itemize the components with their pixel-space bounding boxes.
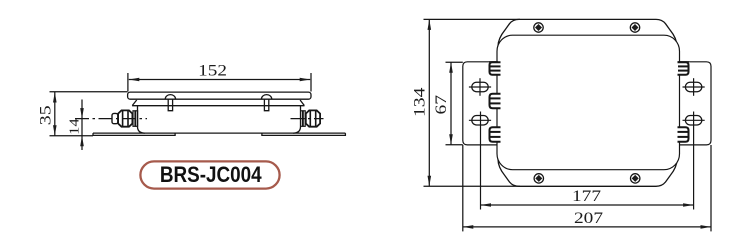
screw TV3 — [534, 174, 543, 183]
arrow up to base — [80, 136, 84, 147]
arrow right of 207 — [701, 225, 712, 229]
terminal T1 hex nut — [118, 110, 132, 126]
base plate (chamfered) — [498, 19, 677, 186]
flange right top edge overlay — [678, 61, 690, 63]
body step left — [132, 100, 136, 106]
slot RT crosshair — [683, 78, 705, 96]
screw S1 shaft — [168, 99, 172, 111]
dim 134 line — [428, 19, 430, 186]
dim 35 extension top — [50, 91, 128, 93]
svg-text:152: 152 — [198, 63, 227, 80]
terminal T1 stud cap — [112, 113, 118, 123]
slot hole LT — [472, 82, 488, 92]
screw S1 head dome — [165, 95, 175, 100]
arrow right of 177 — [683, 203, 694, 207]
terminal T2 centerline — [291, 118, 324, 120]
cover plate (top lid) — [128, 92, 311, 99]
dim 207 line — [463, 226, 711, 228]
title pill BRS-JC004 — [140, 161, 279, 188]
arrow bottom of 67 — [449, 134, 453, 145]
svg-text:67: 67 — [433, 95, 450, 115]
slot hole LB — [472, 116, 488, 126]
svg-text:14: 14 — [67, 119, 82, 135]
arrow bottom of 35 — [53, 125, 57, 136]
dim 67 extension top — [446, 61, 463, 63]
arrow top of 35 — [53, 92, 57, 103]
screw TV2 — [630, 23, 639, 32]
screw TV4 — [631, 174, 640, 183]
dim 67 line — [450, 62, 452, 144]
dim 14 line — [81, 100, 83, 151]
terminal T2 hex nut — [306, 110, 320, 126]
flange right — [676, 62, 711, 145]
slot LT crosshair — [469, 78, 491, 96]
stud R2 — [678, 127, 689, 142]
svg-text:BRS-JC004: BRS-JC004 — [160, 162, 262, 187]
body step right — [300, 100, 304, 106]
slot LB crosshair + extension to dim 177 — [469, 112, 491, 210]
svg-text:207: 207 — [574, 210, 603, 227]
stud L1 — [490, 62, 501, 74]
slot RB crosshair + extension to dim 177 — [683, 112, 705, 210]
dim 35 extension bottom — [50, 135, 94, 137]
stud R1 — [678, 62, 689, 74]
screw TV1 — [534, 23, 543, 32]
terminal T2 washers — [301, 111, 303, 127]
dim 152 line — [129, 79, 310, 81]
terminal T2 nut flats — [309, 111, 311, 127]
body right wall — [293, 106, 301, 133]
left foot — [93, 133, 175, 135]
base/feet top line — [93, 132, 345, 134]
flange left top edge overlay — [489, 61, 498, 63]
dim 67 extension bottom — [446, 144, 463, 146]
terminal T1 nut flats — [122, 111, 124, 127]
screw S2 shaft — [264, 99, 268, 111]
arrow left of 152 — [129, 78, 140, 82]
arrow right of 152 — [300, 78, 311, 82]
slot hole RT — [685, 82, 701, 92]
cover (rounded) — [497, 35, 680, 170]
arrow bottom of 134 — [428, 176, 432, 187]
arrow down to centerline — [80, 108, 84, 119]
dim 207 extension left — [462, 145, 464, 231]
screw S2 head dome — [261, 95, 271, 100]
terminal T1 washers — [133, 111, 135, 127]
svg-text:134: 134 — [412, 88, 429, 118]
arrow left of 207 — [463, 225, 474, 229]
dim 207 extension right — [710, 145, 712, 231]
body left wall — [138, 106, 146, 133]
arrow top of 134 — [428, 19, 432, 30]
dim 134 extension bottom — [424, 185, 521, 187]
dim 177 line — [481, 204, 694, 206]
flange left — [463, 62, 500, 145]
arrow left of 177 — [481, 203, 492, 207]
arrow top of 67 — [449, 62, 453, 73]
slot hole RB — [685, 116, 701, 126]
svg-text:35: 35 — [37, 105, 54, 125]
stud L2 — [490, 94, 501, 109]
terminal T1 centerline — [75, 118, 147, 120]
body top edge — [132, 105, 304, 107]
right foot — [262, 133, 346, 135]
dim 134 extension top — [424, 18, 521, 20]
stud L3 — [490, 127, 501, 142]
svg-text:177: 177 — [572, 188, 601, 205]
wire: extension line left of dim 152 — [128, 73, 311, 92]
dim 35 line — [54, 92, 56, 136]
